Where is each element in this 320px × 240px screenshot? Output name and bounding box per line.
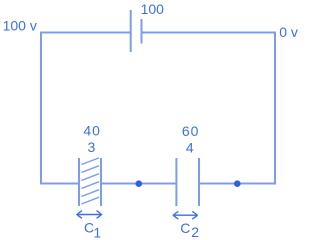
- dimension arrow under C1: [77, 211, 102, 219]
- capacitor C1 left plate: [78, 158, 80, 206]
- wire: bottom segment left of C1: [41, 183, 79, 185]
- svg-text:C: C: [180, 220, 190, 236]
- svg-text:40: 40: [83, 123, 100, 139]
- junction node J2: [234, 180, 241, 187]
- svg-text:100 v: 100 v: [3, 18, 37, 34]
- wire: bottom segment right of C2: [199, 183, 275, 185]
- svg-text:4: 4: [186, 139, 194, 155]
- svg-text:60: 60: [182, 123, 199, 139]
- svg-text:100: 100: [141, 1, 165, 17]
- junction node J1: [136, 180, 143, 187]
- svg-text:3: 3: [88, 139, 96, 155]
- wire: bottom segment C1 to C2: [101, 183, 176, 185]
- wire: top-left segment: [41, 32, 131, 34]
- wire: top-right segment: [142, 32, 276, 34]
- capacitor C1 right plate: [100, 158, 102, 206]
- capacitor C2 left plate: [175, 158, 177, 206]
- svg-text:2: 2: [191, 224, 199, 240]
- svg-text:1: 1: [93, 224, 101, 240]
- battery B1 short plate: [141, 19, 143, 44]
- wire: right vertical: [274, 32, 276, 185]
- capacitor C2 right plate: [198, 158, 200, 206]
- battery B1 long plate: [130, 10, 132, 52]
- dimension arrow under C2: [173, 211, 197, 219]
- svg-text:0 v: 0 v: [279, 24, 298, 40]
- capacitor C1 dielectric hatch: [82, 158, 100, 204]
- wire: left vertical: [40, 32, 42, 185]
